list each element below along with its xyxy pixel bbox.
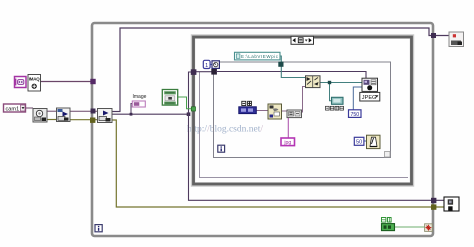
wire: image inside case to R4: [196, 71, 212, 73]
tunnel image in (on W1 left): [90, 79, 95, 84]
JPEG ring constant: [360, 92, 380, 101]
tunnel on R4 left (image): [211, 69, 217, 75]
wire: image inside R4 to save VI: [216, 72, 366, 79]
IMAQ Write File (save) VI: [362, 78, 378, 91]
wire: 50 to metronome: [364, 140, 367, 142]
IMAQdx Configure Grab VI: [57, 108, 71, 122]
tunnel on W1 right edge (image out): [431, 33, 436, 38]
wire: JPEG ring stub: [369, 91, 371, 94]
build path VI: [306, 76, 321, 88]
停止 boolean constant: [382, 224, 395, 231]
tunnel error in (on W1 left): [90, 118, 95, 123]
wait until next ms multiple (metronome) VI: [367, 135, 381, 148]
wire: IMAQ create image out to tunnel: [40, 81, 92, 83]
tunnel on case left (image): [191, 69, 197, 75]
jpg string constant: [281, 138, 295, 146]
case selector tunnel [?] green: [191, 107, 195, 111]
图片路径 indicator: [332, 97, 344, 104]
wire: build path out, junction, to indicator and save: [320, 82, 362, 84]
wire: open-configure purple: [47, 110, 57, 112]
svg-text:jpg: jpg: [283, 140, 291, 146]
IMAQ session name constant: [14, 77, 26, 88]
wire: session down and along bottom to close: [189, 114, 445, 200]
wire: cam1 to open: [26, 107, 34, 109]
svg-text:cam1: cam1: [6, 106, 20, 112]
while W1 iteration terminal i: [95, 225, 102, 232]
case structure C1 (thick inner) border: [193, 37, 412, 185]
Image indicator terminal: [132, 101, 145, 107]
numeric constant 750: [349, 110, 362, 118]
svg-text:750: 750: [350, 112, 359, 118]
wire: concat out up to build path: [301, 87, 305, 113]
concatenate VI: [287, 110, 302, 118]
svg-text:http://blog.csdn.net/: http://blog.csdn.net/: [187, 125, 263, 135]
学号 string constant (blue box): [239, 107, 256, 114]
停止 label (green): [382, 218, 392, 223]
wire: image indicator drop: [131, 104, 133, 115]
wire: 750 up to save VI: [353, 87, 362, 110]
cam1 IO constant: [4, 104, 26, 112]
wire: teal path const down into R4: [280, 56, 305, 78]
numeric constant 50: [354, 137, 364, 145]
tunnel session in (on W1 left): [91, 109, 96, 114]
svg-text:IMAQ: IMAQ: [29, 77, 41, 82]
svg-text:JPEG: JPEG: [362, 95, 377, 101]
wire: session horizontal y=114 grab to junction: [112, 113, 189, 115]
junction dot at 188,114: [187, 112, 191, 116]
tunnel session out (W1 right): [431, 198, 436, 203]
wait ms clock VI: [212, 61, 219, 69]
R4 iteration terminal i: [218, 145, 225, 152]
svg-text:1: 1: [205, 63, 208, 69]
IMAQdx Close Camera VI (right): [444, 197, 459, 211]
path constant E:\LabVIEWpic: [235, 52, 281, 60]
case/loop R4 (innermost thin) border: [214, 62, 391, 158]
wire: 1 const to wait clock: [210, 64, 212, 66]
IMAQdx Open Camera VI: [33, 109, 47, 123]
tunnel on R4 top (path): [278, 62, 283, 67]
svg-text:Image: Image: [133, 94, 147, 100]
wire: olive error grab down & bottom to close: [112, 120, 444, 207]
wire: olive error configure-grab: [69, 119, 98, 121]
IMAQdx Grab VI: [98, 109, 113, 123]
watermark http://blog.csdn.net/: [187, 125, 263, 135]
拍摄 boolean control: [162, 90, 177, 106]
wire: string 学号 const to format VI: [256, 110, 268, 112]
wire: grab right to x120 bend: [112, 111, 121, 113]
IMAQ Dispose VI (top right): [449, 32, 464, 47]
wire: configure-grab session (through tunnel): [69, 110, 98, 112]
svg-text:50: 50: [356, 140, 362, 146]
wire: purple image wire top run to dispose: [120, 28, 449, 112]
IMAQ Create VI: [28, 75, 41, 92]
numeric constant 1: [203, 60, 210, 69]
case selector 真: [291, 36, 314, 44]
conditional terminal (stop): [425, 224, 433, 232]
图片路径 label: [326, 106, 344, 110]
wire: 拍摄 green to case selector: [178, 97, 191, 109]
wire: olive error open-configure: [47, 119, 57, 121]
tunnel error out (W1 right): [431, 204, 436, 209]
学号 label: [242, 101, 252, 105]
svg-text:E:\LabVIEWpic: E:\LabVIEWpic: [241, 54, 279, 59]
wire: image branch up into case: [189, 72, 197, 114]
wire: stop button to conditional terminal: [395, 226, 426, 228]
format into string VI: [268, 104, 282, 119]
R4 resize corner glyph: [385, 152, 391, 158]
while loop W1 (outer) border: [92, 23, 433, 236]
wire: format to concat: [281, 110, 287, 112]
wire: jpg const up to concat: [287, 118, 289, 138]
while loop W2 (thin, inside case) partial border: [200, 72, 409, 178]
